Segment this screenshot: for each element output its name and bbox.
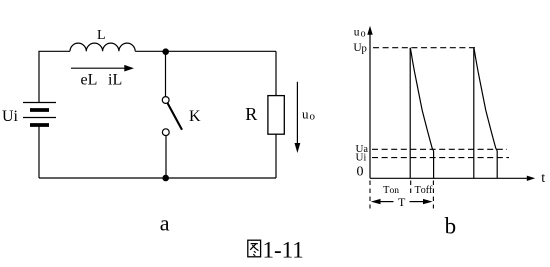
svg-text:off: off <box>421 185 433 196</box>
pulse 1 rising edge <box>409 48 411 179</box>
arrow uo output voltage <box>295 82 301 153</box>
svg-text:b: b <box>445 214 457 239</box>
svg-text:U: U <box>356 152 364 164</box>
pulse 2 decay curve <box>474 48 497 151</box>
svg-text:u: u <box>354 27 360 39</box>
wire right rail bottom (resistor to bottom rail) <box>275 134 277 178</box>
node top junction <box>162 48 169 55</box>
svg-text:R: R <box>245 104 257 124</box>
svg-text:K: K <box>189 108 201 125</box>
dashed tick between Ton and Toff <box>410 181 412 197</box>
svg-text:u: u <box>302 107 309 122</box>
dashed tick at end of period T <box>432 181 434 209</box>
switch K <box>162 97 182 136</box>
dimension arrow T left <box>371 199 394 204</box>
y-axis uo <box>367 26 372 179</box>
svg-text:a: a <box>160 211 170 236</box>
svg-text:p: p <box>361 42 367 54</box>
svg-text:0: 0 <box>357 165 364 180</box>
pulse 1 falling edge <box>433 151 435 179</box>
wire switch branch bottom <box>165 136 167 178</box>
label figure number 图 glyph drawn <box>248 240 261 257</box>
resistor R <box>268 96 284 135</box>
pulse 2 rising edge <box>473 48 475 179</box>
svg-text:o: o <box>361 29 366 40</box>
x-axis t <box>370 176 535 181</box>
wire bottom rail <box>39 177 276 179</box>
svg-text:L: L <box>97 28 106 43</box>
dimension arrow T right <box>410 199 433 204</box>
svg-text:t: t <box>541 171 545 186</box>
wire left rail bottom (battery to bottom rail) <box>38 125 40 178</box>
svg-text:T: T <box>398 195 406 209</box>
wire top rail left (battery top to inductor) <box>39 51 70 102</box>
dashed level Ui <box>372 157 509 159</box>
node bottom junction <box>162 175 169 182</box>
dashed tick at origin below axis <box>369 181 371 209</box>
pulse 2 falling edge <box>496 151 498 179</box>
svg-text:o: o <box>310 111 316 123</box>
svg-text:iL: iL <box>108 72 122 89</box>
battery Ui <box>23 103 56 126</box>
pulse 1 decay curve <box>410 48 433 151</box>
inductor L <box>70 43 135 51</box>
wire top rail right (inductor to right corner) <box>135 50 276 52</box>
svg-text:1-11: 1-11 <box>263 237 304 262</box>
svg-text:eL: eL <box>81 72 98 89</box>
dashed level Up <box>373 47 478 49</box>
svg-text:i: i <box>364 153 367 164</box>
svg-text:Ui: Ui <box>2 108 19 125</box>
dashed level Ua <box>372 148 507 150</box>
arrow eL iL direction <box>71 65 134 72</box>
wire right rail top (top rail to resistor) <box>275 51 277 95</box>
wire switch branch top <box>165 51 167 96</box>
